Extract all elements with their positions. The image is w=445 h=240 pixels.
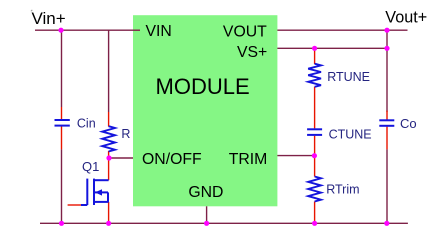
junction Vin bbox=[58, 28, 63, 33]
wire CTUNE to TRIM node bbox=[314, 136, 316, 156]
wire Vout+ vertical drop bbox=[386, 30, 388, 112]
svg-text:VS+: VS+ bbox=[237, 44, 267, 61]
junction ON/OFF bbox=[106, 155, 111, 160]
svg-text:VOUT: VOUT bbox=[223, 23, 267, 40]
svg-text:TRIM: TRIM bbox=[229, 151, 268, 168]
capacitor Co bbox=[379, 120, 394, 126]
wire ON/OFF bbox=[109, 157, 142, 159]
resistor R bbox=[102, 126, 115, 151]
wire R pin stub top bbox=[108, 112, 110, 127]
module U1 body bbox=[133, 15, 277, 206]
junction rail Q1 bbox=[106, 221, 111, 226]
wire VOUT to Vout+ bbox=[267, 29, 408, 31]
wire Q1 gate lead bbox=[68, 204, 81, 206]
svg-text:Cin: Cin bbox=[77, 117, 96, 131]
junction Vout+ bbox=[384, 28, 389, 33]
svg-text:MODULE: MODULE bbox=[156, 74, 250, 99]
wire RTUNE to CTUNE bbox=[314, 87, 316, 129]
svg-text:Q1: Q1 bbox=[82, 159, 99, 174]
svg-text:CTUNE: CTUNE bbox=[329, 127, 372, 141]
junction rail GND bbox=[204, 221, 209, 226]
svg-text:Co: Co bbox=[400, 116, 417, 131]
wire Cin branch upper bbox=[61, 30, 63, 107]
svg-text:Vin+: Vin+ bbox=[32, 9, 66, 28]
wire bottom ground rail bbox=[40, 222, 408, 224]
svg-text:VIN: VIN bbox=[146, 23, 172, 40]
svg-text:RTrim: RTrim bbox=[326, 183, 359, 197]
wire RTrim to rail bbox=[314, 202, 316, 224]
wire Cin pin stub top bbox=[61, 107, 63, 119]
wire Co to rail bbox=[386, 149, 388, 223]
wire R pin stub bottom bbox=[108, 151, 110, 158]
junction TRIM bbox=[312, 153, 317, 158]
wire Cin branch lower bbox=[61, 149, 63, 223]
wire TRIM bbox=[268, 155, 315, 157]
pin wire GND bbox=[206, 206, 208, 223]
svg-text:GND: GND bbox=[188, 184, 223, 201]
resistor RTUNE bbox=[308, 64, 321, 87]
junction VS+ RTUNE bbox=[312, 46, 317, 51]
junction rail Co bbox=[384, 221, 389, 226]
pin wire VIN inside bbox=[133, 29, 140, 31]
wire R branch upper bbox=[108, 30, 110, 112]
svg-text:RTUNE: RTUNE bbox=[327, 70, 370, 84]
stray tick mark bbox=[31, 10, 32, 11]
capacitor Cin bbox=[55, 120, 70, 126]
wire RTUNE stub top bbox=[314, 48, 316, 64]
capacitor CTUNE bbox=[307, 129, 322, 135]
wire VS+ bbox=[270, 47, 387, 49]
wire Q1 source bbox=[108, 202, 110, 223]
resistor RTrim bbox=[308, 177, 321, 202]
transistor Q1 arrow bbox=[95, 189, 102, 195]
junction rail Cin bbox=[59, 221, 64, 226]
svg-text:R: R bbox=[121, 127, 130, 141]
wire Cin pin stub bottom bbox=[61, 126, 63, 149]
svg-text:ON/OFF: ON/OFF bbox=[142, 151, 202, 168]
wire Q1 drain bbox=[108, 158, 110, 180]
transistor Q1 (NMOS) bbox=[81, 179, 109, 205]
wire Co stub top bbox=[386, 111, 388, 120]
junction VS+ end bbox=[384, 46, 389, 51]
wire TRIM node to RTrim bbox=[314, 156, 316, 177]
wire Vin+ top rail bbox=[35, 29, 140, 31]
svg-text:Vout+: Vout+ bbox=[385, 9, 427, 27]
junction rail RTrim bbox=[312, 221, 317, 226]
wire Co stub bottom bbox=[386, 127, 388, 150]
